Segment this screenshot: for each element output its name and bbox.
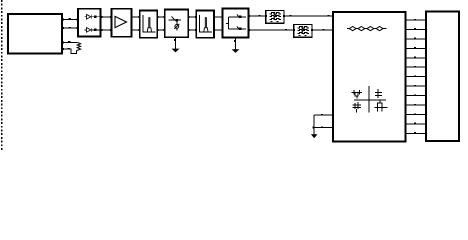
wire: amp to filter1 (bottom) — [132, 29, 140, 31]
glyph: trimmer BL — [353, 102, 362, 112]
resonator diamond 2 — [358, 27, 365, 31]
wire: left box bias output A — [62, 41, 77, 43]
port blob wire A — [62, 41, 64, 43]
port blob diode box input top — [76, 18, 78, 20]
inductor / resonator chain inside big box — [347, 28, 387, 30]
splitter input stub — [226, 22, 229, 24]
wire: splitter to big box (bottom rail) — [249, 29, 334, 31]
resonator diamond 4 — [376, 27, 383, 31]
junction bump on wire A — [68, 41, 70, 43]
glyph: crystal BR — [375, 100, 388, 111]
glyph: capacitor TR — [375, 89, 382, 98]
dashed boundary line (left margin) — [1, 0, 3, 150]
ground symbol (arrow) — [311, 134, 318, 138]
attenuator series element (line, arrow, square) — [169, 19, 182, 21]
resistor R (vertical zigzag between wire A and wire B) — [77, 42, 81, 50]
block: amplifier box U1 — [112, 9, 132, 37]
wire: left box bias output B — [62, 49, 77, 53]
wire: filter1 to attenuator (top) — [157, 16, 164, 18]
block: bandpass filter 1 — [140, 11, 158, 38]
port blobs LPF2 — [293, 29, 295, 31]
amplifier triangle — [115, 16, 127, 27]
port blobs LPF1 — [265, 15, 267, 17]
wire: big box lower-left pin A to ground — [314, 114, 333, 116]
vertical ground stem joining pins A and B — [313, 115, 315, 135]
port blob diode box input bottom — [76, 27, 78, 29]
block: connector (far right box) — [426, 12, 459, 142]
blob on ground stem — [174, 39, 176, 41]
filter2 response curve axes — [199, 15, 211, 32]
ground symbol (arrow) — [172, 49, 180, 53]
crossing bus lines inside big box — [368, 86, 370, 112]
block: splitter / detector box — [223, 9, 249, 38]
block: dual photodiode box — [78, 9, 101, 37]
wire: filter2 to splitter (bottom) — [214, 29, 223, 31]
block: main IC (big box) — [333, 12, 406, 142]
resonator diamond 3 — [367, 27, 374, 31]
ground symbol (arrow) — [232, 49, 240, 53]
filter1 response curve axes — [143, 15, 155, 32]
splitter branch 1 (line, arrow, square) — [228, 16, 246, 18]
LPF2 symbol — [298, 26, 309, 36]
wire: filter2 to splitter (top) — [214, 16, 223, 18]
splitter branch 2 (line, arrow, square) — [228, 28, 246, 30]
junction bumps on top rail — [259, 15, 261, 16]
wire: left box to photodiode box (top) — [62, 18, 78, 20]
pin bus between big box and connector box: 13 rungs — [406, 19, 427, 134]
block: variable attenuator box — [165, 10, 189, 38]
glyph: trimmer TL — [352, 90, 363, 98]
wire: diode box to amplifier (top) — [101, 16, 112, 18]
junction bump on wire B — [68, 48, 70, 50]
attenuator control: stem, circle, arrow — [176, 22, 178, 25]
port blob wire B — [62, 48, 64, 50]
wire: big box lower-left pin B to ground — [314, 127, 333, 129]
block: optical input module (large left box) — [8, 14, 62, 54]
filter1 response peak — [147, 18, 151, 32]
LPF1 symbol — [270, 12, 281, 22]
filter2 response peak — [204, 18, 208, 32]
block: bandpass filter 2 — [196, 11, 214, 38]
port blob left box top — [62, 18, 64, 20]
splitter bracket — [227, 17, 229, 29]
wire: left box to photodiode box (bottom) — [62, 27, 78, 29]
wire: attenuator to filter2 (top) — [188, 16, 196, 18]
resonator diamond 1 — [349, 27, 356, 31]
photodiode D1 — [85, 15, 101, 20]
ground stem under attenuator — [175, 37, 177, 49]
block: low pass filter LPF1 (top rail) — [266, 10, 284, 23]
wire: amp to filter1 (top) — [132, 16, 140, 18]
wire: splitter to big box (top rail) — [249, 15, 334, 17]
wire: diode box to amplifier (bottom) — [101, 29, 112, 31]
port blob left box bottom — [62, 27, 64, 29]
junction bump on wire — [69, 18, 71, 20]
junction bump on wire — [69, 27, 71, 29]
ground stem under splitter — [235, 38, 237, 50]
blob on splitter ground stem — [234, 40, 236, 42]
wire: filter1 to attenuator (bottom) — [157, 29, 164, 31]
photodiode D2 — [85, 28, 101, 33]
wire: attenuator to filter2 (bottom) — [188, 29, 196, 31]
junction bumps on bottom rail — [285, 29, 287, 31]
block: low pass filter LPF2 (bottom rail) — [294, 24, 312, 37]
